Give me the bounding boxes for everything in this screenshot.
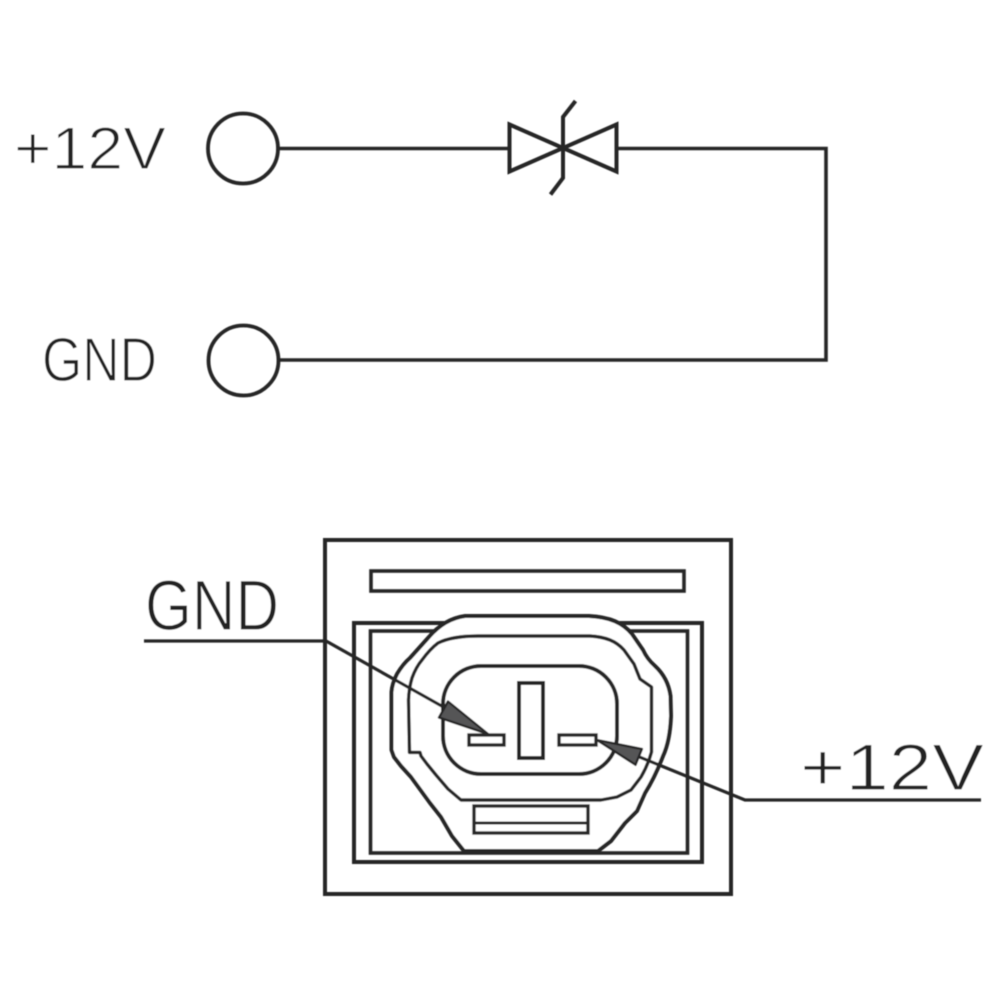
svg-text:+12V: +12V [800,730,984,804]
TVS diode D1 left triangle [510,125,564,172]
TVS diode D1 center bar with hooks [551,101,576,195]
connector outer rectangle [325,540,731,894]
connector housing outer outline [392,616,672,851]
+12V leader line [637,756,981,800]
svg-text:GND: GND [42,326,157,395]
connector latch inner line [474,822,588,825]
wire from +12V terminal to TVS diode [278,147,510,151]
terminal circle GND [209,326,279,396]
svg-text:GND: GND [145,567,279,646]
terminal circle +12V [208,114,278,184]
GND leader arrowhead [439,702,488,735]
connector latch rectangle [474,806,588,833]
+12V leader arrowhead [597,740,642,765]
connector top slot bar [371,571,684,591]
GND leader line [144,641,447,709]
GND pin (left) [469,735,504,745]
svg-text:+12V: +12V [14,115,166,182]
TVS diode D1 right triangle [563,125,617,172]
wire from TVS diode right around to GND terminal [278,149,826,361]
+12V pin (right) [559,735,596,745]
connector third rectangle [371,631,688,853]
center key pin rectangle [519,683,543,758]
connector second rectangle [354,623,702,862]
connector cavity rounded rectangle [443,666,617,774]
connector housing inner outline [409,636,652,800]
